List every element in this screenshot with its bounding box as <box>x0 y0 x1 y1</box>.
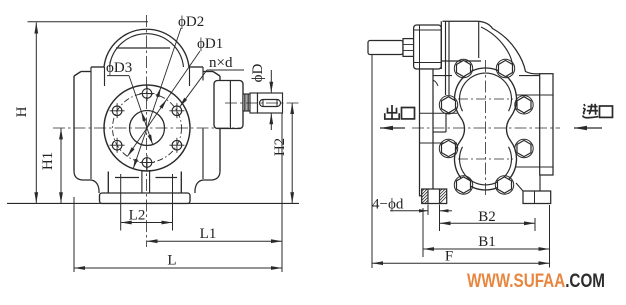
svg-text:ϕD3: ϕD3 <box>106 60 132 76</box>
svg-text:B2: B2 <box>478 209 496 225</box>
svg-text:ϕD2: ϕD2 <box>178 14 204 30</box>
svg-text:ϕD1: ϕD1 <box>197 36 223 52</box>
svg-text:L2: L2 <box>129 208 146 224</box>
svg-text:H2: H2 <box>272 138 288 156</box>
svg-text:n×d: n×d <box>209 55 233 71</box>
svg-text:4−ϕd: 4−ϕd <box>372 197 404 213</box>
svg-text:F: F <box>445 249 453 265</box>
svg-text:L1: L1 <box>200 226 217 242</box>
svg-text:H: H <box>14 106 30 117</box>
svg-text:H1: H1 <box>40 152 56 170</box>
svg-text:L: L <box>167 253 176 269</box>
svg-text:B1: B1 <box>478 234 496 250</box>
svg-text:ϕD: ϕD <box>250 63 266 82</box>
svg-text:WWW.SUFAA.COM: WWW.SUFAA.COM <box>467 270 605 292</box>
